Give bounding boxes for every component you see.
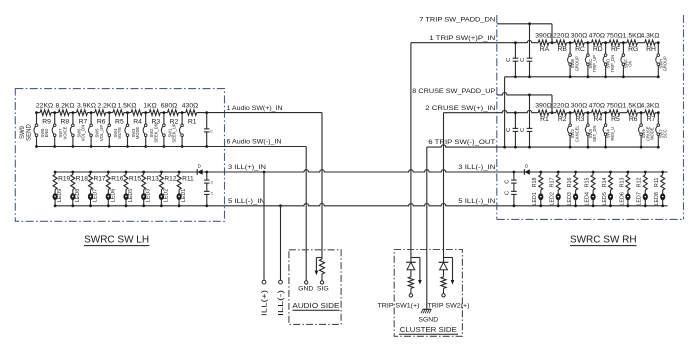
svg-text:680Ω: 680Ω bbox=[161, 103, 177, 110]
label SW3 MODE bbox=[131, 127, 140, 140]
LED LED3 (RH) bbox=[567, 190, 578, 207]
svg-text:R18: R18 bbox=[76, 176, 88, 183]
svg-text:R19: R19 bbox=[58, 176, 70, 183]
arrow (signal direction, TRIP SW1(+)) bbox=[411, 258, 422, 285]
wire ILL(+) drop to terminal bbox=[263, 171, 266, 281]
svg-text:MODE: MODE bbox=[650, 127, 655, 140]
switch SW7 VOICE bbox=[70, 111, 74, 148]
svg-text:430Ω: 430Ω bbox=[182, 103, 198, 110]
LED LED9 bbox=[53, 189, 64, 207]
label SW7 VOICE bbox=[58, 126, 67, 139]
svg-text:R2: R2 bbox=[558, 116, 567, 123]
svg-text:RA: RA bbox=[540, 46, 550, 53]
LED LED1 (RH) bbox=[532, 190, 543, 207]
label TRIP SW1(+) bbox=[378, 302, 420, 309]
svg-text:RD: RD bbox=[593, 46, 603, 53]
diode D (ILL reverse protect, RH) bbox=[524, 164, 529, 175]
resistor RC (TRIP) bbox=[574, 40, 585, 53]
resistor R16 (RH) bbox=[567, 171, 578, 190]
value label 1.5KΩ (TRIP) bbox=[623, 33, 642, 40]
svg-text:LED7: LED7 bbox=[637, 192, 643, 206]
svg-text:TRIP SW2(+): TRIP SW2(+) bbox=[428, 302, 470, 309]
pin label 5 ILL(-)_IN (RH) bbox=[458, 198, 495, 205]
diode (cluster branch 1) bbox=[406, 258, 416, 270]
resistor R13 bbox=[142, 171, 159, 190]
wire ladder bus (CRUSE) bbox=[444, 110, 659, 112]
terminal ILL(-) bbox=[278, 280, 285, 316]
value label 300Ω (CRUSE) bbox=[571, 103, 587, 110]
label SWC TRIP_UP bbox=[588, 55, 597, 73]
label SW3 SET_DN bbox=[588, 126, 597, 142]
svg-text:R16: R16 bbox=[567, 177, 573, 187]
svg-text:TRIP SW1(+): TRIP SW1(+) bbox=[378, 302, 420, 309]
svg-text:C: C bbox=[506, 58, 512, 62]
svg-text:OK: OK bbox=[628, 60, 633, 66]
svg-text:LED3: LED3 bbox=[146, 189, 152, 203]
capacitor C (TRIP b) bbox=[520, 24, 532, 78]
svg-text:3.9KΩ: 3.9KΩ bbox=[77, 103, 96, 110]
svg-text:R1: R1 bbox=[540, 116, 549, 123]
value label 1.5KΩ bbox=[117, 103, 136, 110]
label SW4 MUTE bbox=[113, 127, 122, 139]
svg-text:1.5KΩ: 1.5KΩ bbox=[117, 103, 136, 110]
svg-text:LED1: LED1 bbox=[181, 189, 187, 203]
pin label 3 ILL(+)_IN bbox=[228, 164, 266, 171]
svg-text:R6: R6 bbox=[629, 116, 638, 123]
label SW6 CRUSE MODE bbox=[641, 126, 654, 141]
svg-text:RC: RC bbox=[575, 46, 585, 53]
resistor RD (TRIP) bbox=[592, 40, 603, 53]
svg-text:LED2: LED2 bbox=[550, 192, 556, 206]
resistor R18 bbox=[71, 171, 88, 190]
resistor R17 (RH) bbox=[550, 171, 561, 190]
label SWRC SW RH bbox=[570, 234, 637, 245]
LED LED6 (RH) bbox=[619, 190, 630, 207]
label SW4 RES_U bbox=[606, 127, 615, 141]
svg-text:TRIP_DN: TRIP_DN bbox=[610, 55, 615, 73]
svg-text:R7: R7 bbox=[79, 119, 88, 126]
arrow (signal direction, audio) bbox=[315, 258, 322, 276]
svg-text:300Ω: 300Ω bbox=[571, 33, 587, 40]
value label 2.2KΩ bbox=[97, 103, 116, 110]
switch SWC TRIP_UP bbox=[585, 41, 589, 78]
capacitor C (TRIP a) bbox=[506, 41, 518, 78]
svg-text:R7: R7 bbox=[647, 116, 656, 123]
wire ILL(+) bus (RH) bbox=[497, 171, 668, 173]
value label 750Ω (TRIP) bbox=[606, 33, 622, 40]
svg-text:R17: R17 bbox=[94, 176, 106, 183]
svg-text:C: C bbox=[210, 129, 213, 133]
switch SW4 RES_U bbox=[603, 111, 607, 148]
svg-text:750Ω: 750Ω bbox=[606, 33, 622, 40]
value label 390Ω (TRIP) bbox=[535, 33, 551, 40]
svg-text:LED6: LED6 bbox=[619, 192, 625, 206]
svg-text:SW9: SW9 bbox=[20, 125, 26, 139]
value label 750Ω (CRUSE) bbox=[606, 103, 622, 110]
svg-text:6 Audio SW(-)_IN: 6 Audio SW(-)_IN bbox=[227, 139, 282, 146]
switch SW4 MUTE bbox=[125, 111, 129, 148]
label SW9 SEND bbox=[20, 123, 33, 140]
value label 220Ω (CRUSE) bbox=[553, 103, 569, 110]
resistor RH (TRIP) bbox=[645, 40, 656, 53]
label SWH GROUP bbox=[658, 56, 667, 71]
svg-text:390Ω: 390Ω bbox=[535, 103, 551, 110]
value label 680Ω bbox=[161, 103, 177, 110]
resistor R11 (RH) bbox=[654, 171, 665, 190]
LED LED6 bbox=[106, 189, 117, 207]
svg-text:1.5KΩ: 1.5KΩ bbox=[623, 33, 642, 40]
svg-text:R14: R14 bbox=[602, 177, 608, 187]
svg-text:R9: R9 bbox=[42, 119, 51, 126]
diode D (ILL reverse protect, LH) bbox=[197, 164, 202, 175]
value label 430Ω bbox=[182, 103, 198, 110]
svg-text:C: C bbox=[520, 58, 526, 62]
LED LED3 bbox=[141, 189, 152, 207]
wire 1 TRIP SW(+)P_IN run bbox=[411, 42, 497, 44]
svg-text:R12: R12 bbox=[637, 177, 643, 187]
svg-text:SEEK_UP: SEEK_UP bbox=[172, 123, 177, 142]
pin label 1 TRIP SW(+)P_IN bbox=[429, 35, 495, 42]
SWRC SW RH block boundary (right border) bbox=[683, 15, 685, 219]
wire ladder bus (TRIP) bbox=[497, 40, 659, 42]
wire ILL(-) drop to terminal bbox=[279, 204, 282, 280]
value label 3.9KΩ bbox=[77, 103, 96, 110]
svg-text:390Ω: 390Ω bbox=[535, 33, 551, 40]
svg-text:R17: R17 bbox=[550, 177, 556, 187]
svg-text:SWRC SW LH: SWRC SW LH bbox=[84, 234, 149, 245]
svg-text:R11: R11 bbox=[654, 178, 660, 188]
svg-text:750Ω: 750Ω bbox=[606, 103, 622, 110]
resistor R4 bbox=[131, 110, 142, 126]
svg-text:R16: R16 bbox=[111, 176, 123, 183]
value label 470Ω (CRUSE) bbox=[589, 103, 605, 110]
svg-text:LED5: LED5 bbox=[602, 192, 608, 206]
resistor R12 (RH) bbox=[637, 171, 648, 190]
terminal TRIP SW2(+) bbox=[442, 294, 445, 297]
wire ILL(-) bus (pin 5) bbox=[55, 204, 497, 206]
svg-text:220Ω: 220Ω bbox=[553, 33, 569, 40]
wire TRIP SW2(+) drop bbox=[443, 113, 445, 258]
switch SW6 CRUSE MODE bbox=[639, 111, 643, 148]
terminal GND bbox=[298, 281, 313, 293]
svg-text:SIG: SIG bbox=[317, 285, 329, 292]
svg-text:SEND: SEND bbox=[27, 123, 33, 140]
value label 8.2KΩ bbox=[55, 103, 74, 110]
svg-text:R12: R12 bbox=[164, 176, 176, 183]
resistor (SIG pull) bbox=[319, 258, 324, 281]
capacitor C (audio filter) bbox=[204, 111, 213, 148]
CLUSTER SIDE block boundary bbox=[394, 250, 462, 337]
resistor R4 (CRUSE) bbox=[592, 110, 603, 123]
svg-text:LED5: LED5 bbox=[128, 189, 134, 203]
svg-text:C: C bbox=[504, 191, 510, 195]
svg-text:VOICE: VOICE bbox=[62, 126, 67, 139]
svg-text:RG: RG bbox=[628, 46, 638, 53]
pin label 6 Audio SW(-)_IN bbox=[227, 139, 282, 146]
resistor R6 bbox=[95, 110, 106, 126]
svg-text:1 TRIP SW(+)P_IN: 1 TRIP SW(+)P_IN bbox=[429, 35, 495, 42]
switch SW9 SEND bbox=[34, 111, 38, 148]
svg-text:LED8: LED8 bbox=[654, 192, 660, 206]
svg-text:R3: R3 bbox=[576, 116, 585, 123]
label SGND bbox=[418, 317, 438, 324]
label SW2 SEEK_DN bbox=[149, 123, 158, 142]
wire TRIP paddle-down line bbox=[497, 22, 554, 44]
svg-text:8.2KΩ: 8.2KΩ bbox=[55, 103, 74, 110]
resistor R15 (RH) bbox=[585, 171, 596, 190]
label SWF OK bbox=[623, 59, 632, 69]
arrow (signal direction, TRIP SW2(+)) bbox=[444, 258, 455, 285]
ground SGND bbox=[421, 147, 431, 313]
svg-text:RB: RB bbox=[557, 46, 567, 53]
capacitor C (CRUSE b) bbox=[520, 95, 532, 149]
LED LED8 bbox=[70, 189, 81, 207]
svg-text:LED9: LED9 bbox=[57, 189, 63, 203]
resistor R7 bbox=[77, 110, 88, 126]
svg-text:SCC: SCC bbox=[663, 129, 668, 138]
svg-text:LED8: LED8 bbox=[75, 189, 81, 203]
svg-text:CANCEL: CANCEL bbox=[574, 125, 579, 142]
value label 4.3KΩ (TRIP) bbox=[640, 33, 659, 40]
value label 22KΩ bbox=[36, 103, 53, 110]
label SW1 SEEK_UP bbox=[167, 123, 176, 142]
label SW8 END bbox=[40, 128, 49, 138]
value label 1.5KΩ (CRUSE) bbox=[623, 103, 642, 110]
svg-text:R5: R5 bbox=[115, 119, 124, 126]
resistor R6 (CRUSE) bbox=[627, 110, 638, 123]
wire TRIP common to TRIP SW(-) out bbox=[503, 77, 506, 149]
svg-text:C: C bbox=[211, 192, 214, 196]
pin label 2 CRUSE SW(+)_IN bbox=[425, 105, 495, 112]
wire Audio SW(-) to AUDIO SIDE GND bbox=[225, 147, 307, 281]
svg-text:R4: R4 bbox=[133, 119, 142, 126]
svg-text:5 ILL(-)_IN: 5 ILL(-)_IN bbox=[458, 198, 495, 205]
resistor R16 bbox=[106, 171, 123, 190]
svg-text:LED6: LED6 bbox=[110, 189, 116, 203]
switch SW3 MODE bbox=[143, 111, 147, 148]
capacitor C (CRUSE a) bbox=[506, 111, 518, 148]
label AUDIO SIDE bbox=[292, 301, 339, 310]
svg-text:2.2KΩ: 2.2KΩ bbox=[97, 103, 116, 110]
capacitor C / capacitor C (ILL filters, RH) bbox=[504, 171, 516, 208]
SWRC SW RH block boundary (left border) bbox=[496, 15, 498, 219]
LED LED7 bbox=[88, 189, 99, 207]
svg-text:R18: R18 bbox=[532, 177, 538, 187]
pin label 3 ILL(-)_IN (RH) bbox=[458, 164, 495, 171]
svg-text:LED7: LED7 bbox=[93, 189, 99, 203]
switch SWH GROUP bbox=[656, 41, 660, 78]
LED LED5 bbox=[123, 189, 134, 207]
svg-text:CLUSTER SIDE: CLUSTER SIDE bbox=[400, 325, 457, 334]
switch SWD TRIP_DN bbox=[603, 41, 607, 78]
svg-text:SEEK_DN: SEEK_DN bbox=[153, 123, 158, 142]
svg-text:R13: R13 bbox=[619, 177, 625, 187]
svg-text:C: C bbox=[506, 128, 512, 132]
svg-text:C: C bbox=[520, 128, 526, 132]
resistor RB (TRIP) bbox=[556, 40, 567, 53]
value label 4.3KΩ (CRUSE) bbox=[640, 103, 659, 110]
svg-text:AUDIO SIDE: AUDIO SIDE bbox=[292, 301, 339, 310]
svg-text:1.5KΩ: 1.5KΩ bbox=[623, 103, 642, 110]
svg-text:TRIP_UP: TRIP_UP bbox=[592, 55, 597, 73]
svg-text:5 ILL(-)_IN: 5 ILL(-)_IN bbox=[228, 198, 265, 205]
svg-text:3 ILL(+)_IN: 3 ILL(+)_IN bbox=[228, 164, 266, 171]
svg-text:2 CRUSE SW(+)_IN: 2 CRUSE SW(+)_IN bbox=[425, 105, 495, 112]
resistor R7 (CRUSE) bbox=[645, 110, 656, 123]
terminal SIG bbox=[317, 281, 329, 293]
switch SW3 SET_DN bbox=[585, 111, 589, 148]
LED LED4 (RH) bbox=[585, 190, 596, 207]
label SW5 VOL_UP bbox=[95, 125, 104, 142]
resistor R5 (CRUSE) bbox=[609, 110, 620, 123]
switch SWF OK bbox=[621, 41, 625, 78]
svg-text:R11: R11 bbox=[182, 176, 194, 183]
svg-text:LED3: LED3 bbox=[567, 192, 573, 206]
svg-text:C: C bbox=[504, 180, 510, 184]
wire ILL(+) bus (pin 3) bbox=[55, 170, 497, 172]
svg-text:R13: R13 bbox=[147, 176, 159, 183]
svg-text:ILL(-): ILL(-) bbox=[278, 290, 285, 316]
wire ILL(-) bus (RH) bbox=[497, 205, 668, 207]
svg-text:R4: R4 bbox=[593, 116, 602, 123]
label SWRC SW LH bbox=[84, 234, 149, 245]
svg-text:R15: R15 bbox=[129, 176, 141, 183]
svg-text:22KΩ: 22KΩ bbox=[36, 103, 53, 110]
svg-text:220Ω: 220Ω bbox=[553, 103, 569, 110]
svg-text:R6: R6 bbox=[97, 119, 106, 126]
resistor R1 (CRUSE) bbox=[538, 110, 549, 123]
label SW7 SCC bbox=[658, 129, 667, 139]
resistor RG (TRIP) bbox=[627, 40, 638, 53]
value label 390Ω (CRUSE) bbox=[535, 103, 551, 110]
svg-text:VOL_DN: VOL_DN bbox=[81, 125, 86, 142]
svg-text:4.3KΩ: 4.3KΩ bbox=[640, 103, 659, 110]
switch SW5 VOL_UP bbox=[107, 111, 111, 148]
wire Audio SW(+) to AUDIO SIDE SIG bbox=[225, 113, 323, 258]
resistor R1 bbox=[186, 110, 197, 126]
svg-text:MUTE: MUTE bbox=[117, 127, 122, 139]
resistor R9 bbox=[40, 110, 51, 126]
svg-text:RF: RF bbox=[611, 46, 620, 53]
svg-text:GND: GND bbox=[298, 285, 313, 292]
svg-text:7 TRIP SW_PADD_DN: 7 TRIP SW_PADD_DN bbox=[419, 17, 495, 24]
resistor R19 bbox=[53, 171, 70, 190]
label SW2 CANCEL bbox=[570, 125, 579, 142]
resistor R2 (CRUSE) bbox=[556, 110, 567, 123]
capacitor C / capacitor C (ILL filters, LH) bbox=[204, 171, 214, 208]
pin label 7 TRIP SW_PADD_DN bbox=[419, 17, 495, 24]
label CLUSTER SIDE bbox=[399, 325, 458, 334]
svg-text:6 TRIP SW(-)_OUT: 6 TRIP SW(-)_OUT bbox=[428, 139, 495, 146]
value label 470Ω (TRIP) bbox=[589, 33, 605, 40]
resistor R8 bbox=[58, 110, 69, 126]
svg-text:R5: R5 bbox=[611, 116, 620, 123]
wire CRUSE paddle-up line bbox=[497, 93, 554, 115]
label SWB GROUP bbox=[570, 56, 579, 71]
value label 220Ω (TRIP) bbox=[553, 33, 569, 40]
value label 1KΩ bbox=[143, 103, 156, 110]
resistor (cluster branch 1) bbox=[408, 270, 413, 294]
resistor R3 (CRUSE) bbox=[574, 110, 585, 123]
resistor R15 bbox=[124, 171, 141, 190]
svg-text:1KΩ: 1KΩ bbox=[143, 103, 156, 110]
svg-text:SET_DN: SET_DN bbox=[592, 126, 597, 142]
svg-text:RH: RH bbox=[646, 46, 656, 53]
switch SW2 SEEK_DN bbox=[161, 111, 165, 148]
resistor R18 (RH) bbox=[532, 171, 543, 190]
resistor RA (TRIP) bbox=[538, 40, 549, 53]
switch SWB GROUP bbox=[568, 41, 572, 78]
switch SW6 VOL_DN bbox=[89, 111, 93, 148]
switch SW7 SCC bbox=[656, 111, 660, 148]
pin label 1 Audio SW(+)_IN bbox=[227, 105, 283, 112]
svg-text:ILL(+): ILL(+) bbox=[261, 290, 268, 316]
pin label 6 TRIP SW(-)_OUT bbox=[428, 139, 495, 146]
SWRC SW RH block boundary (bottom border) bbox=[497, 218, 684, 220]
resistor R13 (RH) bbox=[619, 171, 630, 190]
SWRC SW LH block boundary (dash-dot box) bbox=[15, 89, 224, 222]
wire switch common bus (CRUSE) bbox=[427, 145, 659, 147]
terminal TRIP SW1(+) bbox=[409, 294, 412, 297]
svg-text:LED1: LED1 bbox=[532, 192, 538, 206]
svg-text:1 Audio SW(+)_IN: 1 Audio SW(+)_IN bbox=[227, 105, 283, 112]
label TRIP SW2(+) bbox=[428, 302, 470, 309]
LED LED2 (RH) bbox=[550, 190, 561, 207]
svg-text:470Ω: 470Ω bbox=[589, 103, 605, 110]
svg-text:LED4: LED4 bbox=[585, 192, 591, 206]
resistor R14 (RH) bbox=[602, 171, 613, 190]
pin label 8 CRUSE SW_PADD_UP bbox=[412, 88, 495, 95]
svg-text:SGND: SGND bbox=[418, 317, 438, 324]
svg-text:GROUP: GROUP bbox=[574, 56, 579, 71]
pin label 5 ILL(-)_IN bbox=[228, 198, 265, 205]
value label 300Ω (TRIP) bbox=[571, 33, 587, 40]
svg-text:R1: R1 bbox=[188, 119, 197, 126]
wire audio SW(+) bus (pin 1) bbox=[37, 112, 225, 114]
svg-text:R8: R8 bbox=[60, 119, 69, 126]
LED LED1 bbox=[177, 189, 188, 207]
wire audio SW(-) bus (pin 6) bbox=[37, 146, 225, 148]
LED LED2 bbox=[159, 189, 170, 207]
svg-text:R15: R15 bbox=[585, 177, 591, 187]
label SWD TRIP_DN bbox=[606, 55, 615, 73]
label SW6 VOL_DN bbox=[76, 125, 85, 142]
switch SW1 SEEK_UP bbox=[180, 111, 184, 148]
svg-text:MODE: MODE bbox=[135, 127, 140, 140]
diode (cluster branch 2) bbox=[439, 258, 449, 270]
terminal ILL(+) bbox=[261, 280, 268, 316]
resistor R2 bbox=[168, 110, 179, 126]
switch SW8 END bbox=[52, 111, 56, 148]
svg-text:LED2: LED2 bbox=[163, 189, 169, 203]
wire TRIP SW1(+) drop bbox=[410, 43, 412, 258]
switch SW2 CANCEL bbox=[568, 111, 572, 148]
resistor (cluster branch 2) bbox=[441, 270, 446, 294]
svg-text:GROUP: GROUP bbox=[663, 56, 668, 71]
LED LED8 (RH) bbox=[654, 190, 665, 207]
resistor R17 bbox=[89, 171, 106, 190]
LED LED5 (RH) bbox=[602, 190, 613, 207]
resistor RF (TRIP) bbox=[609, 40, 620, 53]
AUDIO SIDE block boundary bbox=[289, 250, 341, 325]
svg-text:470Ω: 470Ω bbox=[589, 33, 605, 40]
resistor R5 bbox=[113, 110, 124, 126]
resistor R3 bbox=[149, 110, 160, 126]
svg-text:RES_U: RES_U bbox=[610, 127, 615, 141]
wire switch common bus (TRIP) bbox=[505, 76, 659, 78]
svg-text:C: C bbox=[211, 180, 214, 184]
svg-text:END: END bbox=[44, 129, 49, 138]
